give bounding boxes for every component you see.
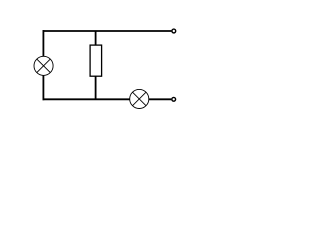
wire top horizontal bbox=[43, 30, 172, 32]
terminal top right bbox=[172, 29, 176, 33]
wire bottom horizontal bbox=[43, 98, 131, 100]
wire resistor branch upper bbox=[95, 31, 97, 46]
resistor R1 bbox=[90, 45, 102, 76]
wire resistor branch lower bbox=[95, 76, 97, 99]
wire left vertical lower bbox=[42, 75, 44, 100]
wire lamp E2 to terminal bbox=[149, 98, 172, 100]
wire left vertical upper bbox=[42, 30, 44, 56]
terminal bottom right bbox=[172, 97, 176, 101]
lamp E2 bbox=[130, 89, 149, 108]
lamp E1 bbox=[34, 56, 53, 75]
